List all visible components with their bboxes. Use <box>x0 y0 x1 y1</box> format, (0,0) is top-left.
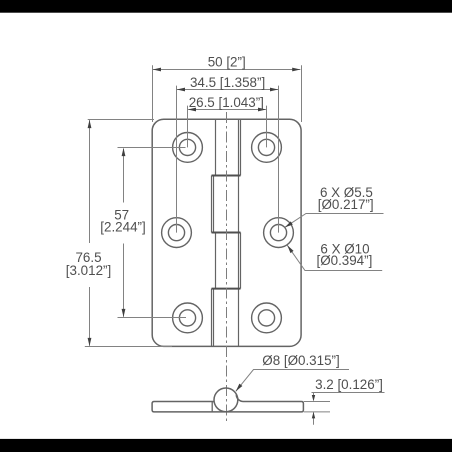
svg-text:[Ø0.217”]: [Ø0.217”] <box>318 197 374 212</box>
svg-text:Ø8 [Ø0.315”]: Ø8 [Ø0.315”] <box>262 353 339 368</box>
svg-text:34.5 [1.358”]: 34.5 [1.358”] <box>190 75 265 90</box>
svg-text:[2.244”]: [2.244”] <box>100 220 145 235</box>
svg-text:50 [2”]: 50 [2”] <box>208 54 246 69</box>
svg-text:[Ø0.394”]: [Ø0.394”] <box>316 253 372 268</box>
svg-text:3.2 [0.126”]: 3.2 [0.126”] <box>315 377 383 392</box>
svg-text:26.5 [1.043”]: 26.5 [1.043”] <box>189 95 264 110</box>
svg-text:[3.012”]: [3.012”] <box>66 263 111 278</box>
